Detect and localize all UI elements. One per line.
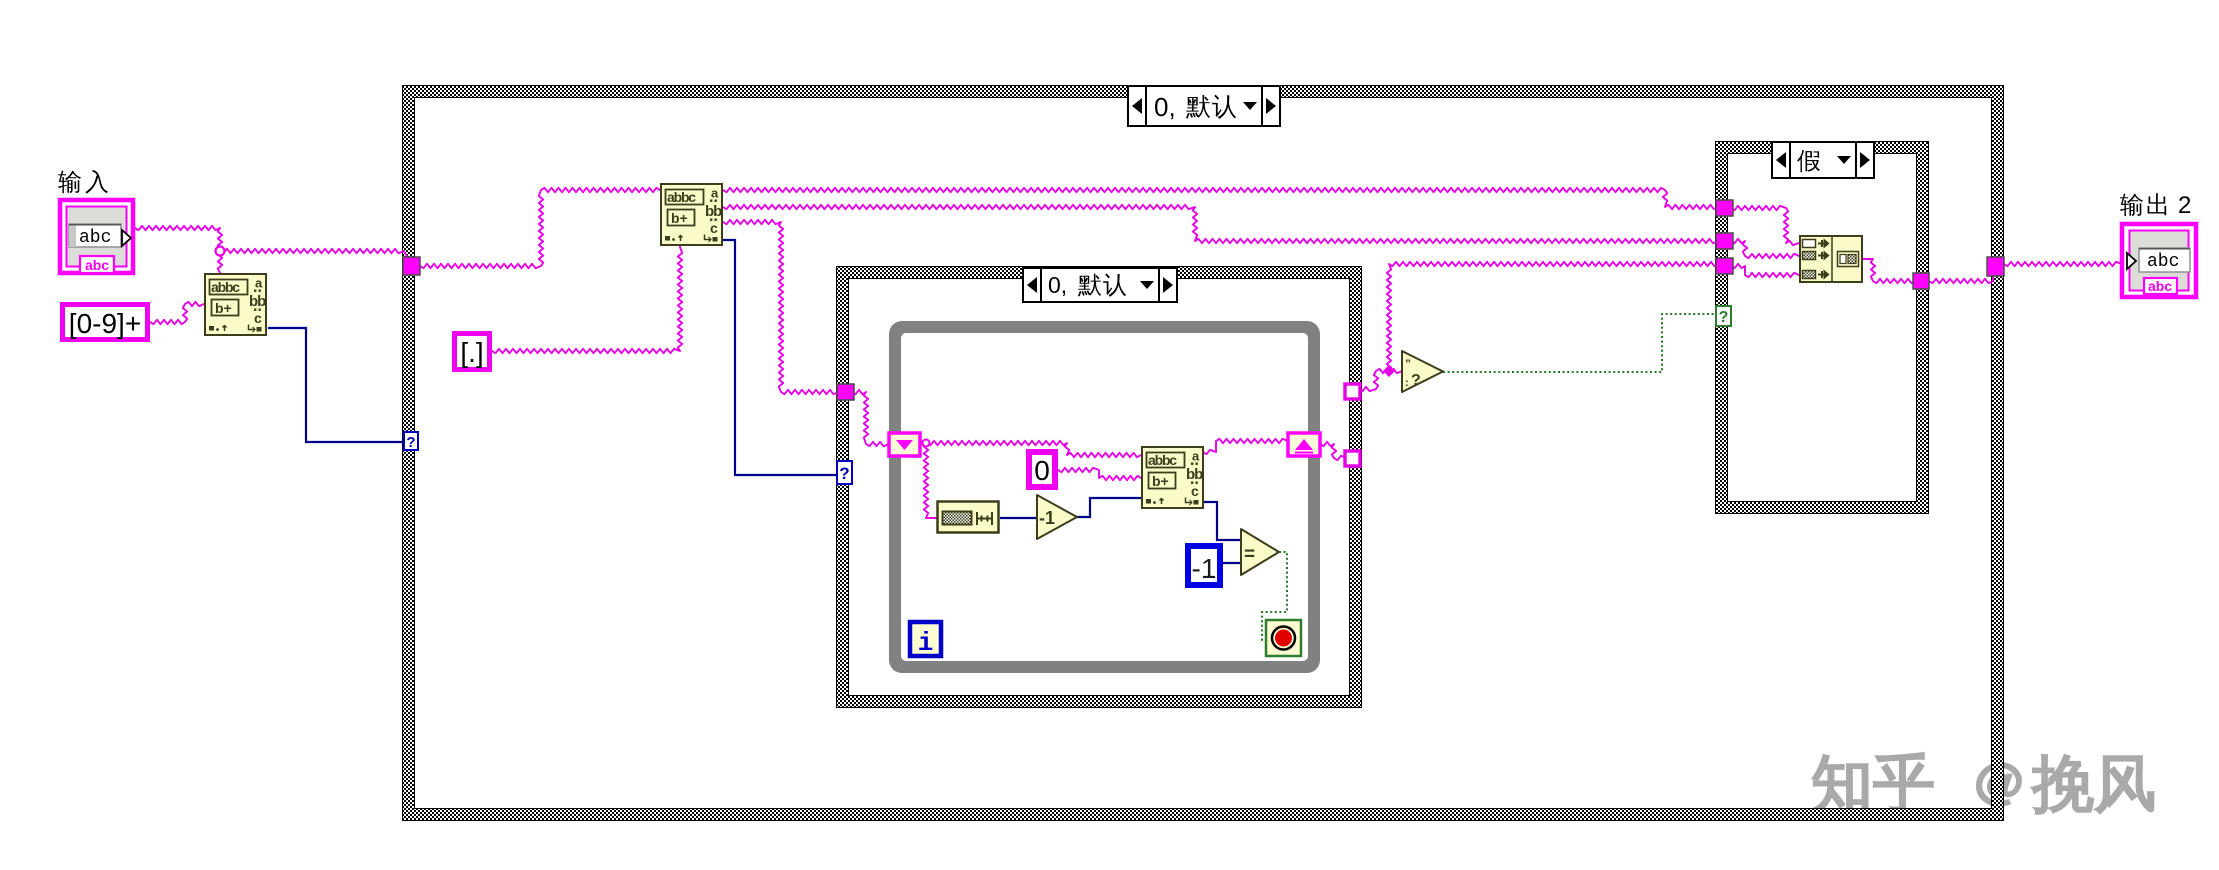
- wire: input control to junction: [135, 226, 222, 249]
- wire: 0 constant to node3: [1058, 468, 1141, 480]
- wire: right case tunnel to outer case tunnel: [1929, 276, 1993, 283]
- svg-text:abc: abc: [2148, 278, 2172, 294]
- wire: outer tunnel to node2: [420, 188, 660, 268]
- outer case selector terminal ?: [404, 432, 418, 451]
- string constant [.]: [455, 334, 490, 370]
- wire junction after left shift register: [923, 440, 930, 447]
- svg-text:b+: b+: [215, 300, 232, 316]
- svg-text::: :: [1405, 377, 1409, 389]
- wire: tunnel1 to replace node row1: [1731, 206, 1799, 245]
- wire: replace node output to right case output tunnel: [1862, 259, 1915, 283]
- svg-text:bb: bb: [705, 203, 722, 220]
- input string control 输入: [60, 200, 133, 273]
- while loop border: [889, 321, 1320, 673]
- wire: node2 output bb to right case tunnel2: [723, 205, 1718, 243]
- svg-text:c: c: [710, 220, 718, 236]
- svg-text:-1: -1: [1192, 553, 1217, 584]
- green wire: equal node to loop stop terminal: [1262, 552, 1287, 640]
- outer case structure border: [402, 85, 2004, 821]
- wire: [0-9]+ constant to node1: [150, 302, 204, 324]
- svg-text:0,: 0,: [1154, 92, 1176, 122]
- wire junction near node1: [216, 247, 225, 256]
- right case output tunnel: [1913, 273, 1929, 289]
- nested case structure border: [836, 266, 1362, 708]
- left shift register: [889, 433, 920, 456]
- blue wire: string length to decrement: [1000, 517, 1037, 519]
- node2 match regular expression: Search and Replace String node: [661, 184, 722, 245]
- svg-text:i: i: [918, 628, 934, 658]
- wire: junction up to right case tunnel3: [1387, 262, 1718, 371]
- wire: tunnel3 to replace node row3: [1731, 264, 1799, 277]
- outer case output tunnel: [1987, 257, 2004, 276]
- svg-text:0,: 0,: [1048, 272, 1067, 298]
- svg-text:0: 0: [1034, 455, 1050, 486]
- blue wire: -1 constant to equal node: [1223, 562, 1241, 564]
- wire: junction down to node1: [218, 251, 222, 273]
- wire: node2 output c to nested case tunnel: [723, 220, 839, 394]
- nested case label "0, 默认": [1023, 268, 1177, 302]
- nested case upper hollow tunnel: [1345, 384, 1360, 399]
- node3 search and replace: Search and Replace String node: [1142, 447, 1203, 508]
- svg-text:abbc: abbc: [1148, 452, 1177, 468]
- svg-text:b+: b+: [1152, 473, 1169, 489]
- loop stop terminal: [1266, 620, 1301, 656]
- svg-text:?: ?: [839, 464, 849, 483]
- svg-text:abbc: abbc: [667, 189, 696, 205]
- svg-text:2: 2: [2178, 192, 2191, 219]
- svg-text:abc: abc: [85, 257, 109, 273]
- watermark 知乎 @挽风: [1813, 753, 2153, 813]
- svg-text:-1: -1: [1039, 508, 1055, 528]
- svg-text:a: a: [255, 276, 263, 291]
- wire: upper hollow tunnel to empty-string node: [1359, 369, 1402, 391]
- svg-text:[0-9]+: [0-9]+: [69, 308, 141, 339]
- svg-text:?: ?: [406, 434, 415, 451]
- right case tunnel 2: [1716, 233, 1733, 249]
- label 输出 2: [2120, 192, 2191, 219]
- wire: nested tunnel to left shift register: [852, 390, 889, 446]
- blue wire: decrement to node3 offset: [1077, 498, 1141, 517]
- wire: [.] constant to node2: [492, 247, 682, 353]
- right inner case structure border: [1715, 141, 1929, 514]
- wire: node2 output a to right case tunnel1: [723, 188, 1718, 209]
- wire: junction to outer tunnel: [220, 249, 408, 258]
- svg-text:bb: bb: [249, 293, 266, 310]
- outer case input tunnel: [403, 257, 420, 275]
- right case selector terminal ? (boolean): [1716, 306, 1731, 326]
- wire junction before empty-string node: [1383, 365, 1395, 377]
- right case tunnel 3: [1716, 258, 1733, 274]
- svg-text:?: ?: [1411, 372, 1421, 389]
- node1 match regular expression: Search and Replace String node: [205, 274, 266, 335]
- svg-text:a: a: [711, 186, 719, 201]
- svg-text:b+: b+: [671, 210, 688, 226]
- wire: outer tunnel to output indicator: [2004, 262, 2122, 266]
- svg-text:=: =: [1244, 544, 1255, 565]
- decrement node: [1037, 495, 1077, 539]
- svg-text:a: a: [1192, 449, 1200, 464]
- string constant 0: [1029, 452, 1055, 487]
- right case label "假": [1772, 142, 1874, 178]
- svg-text:c: c: [254, 310, 262, 326]
- svg-text:abbc: abbc: [211, 279, 240, 295]
- right case tunnel 1: [1716, 200, 1733, 216]
- svg-text:c: c: [1191, 483, 1199, 499]
- nested case selector terminal ?: [837, 461, 852, 484]
- wire: right shift register to lower hollow tunnel: [1320, 442, 1346, 460]
- blue wire: node1 to outer case selector: [268, 328, 404, 442]
- iteration terminal i: [910, 622, 941, 658]
- string constant [0-9]+: [63, 305, 148, 340]
- nested case input tunnel: [837, 384, 854, 400]
- svg-text:abc: abc: [79, 228, 111, 248]
- empty string? node: [1402, 351, 1443, 392]
- green wire: empty-string node to right case selector: [1443, 314, 1716, 372]
- blue wire: node2 to nested case selector: [723, 240, 838, 475]
- wire: node3 output a to right shift register: [1203, 439, 1288, 454]
- output string indicator 输出 2: [2122, 224, 2196, 297]
- svg-text:?: ?: [1719, 309, 1729, 326]
- wire: tunnel2 to replace node row2: [1731, 239, 1799, 258]
- string length node: [938, 502, 999, 533]
- numeric constant -1: [1188, 546, 1220, 585]
- wire: junction down to string length: [924, 443, 936, 518]
- equal node: [1241, 529, 1279, 575]
- wire: left shift register to node3: [920, 441, 1141, 457]
- nested case lower hollow tunnel: [1345, 451, 1360, 466]
- label 输入: [58, 170, 108, 194]
- outer case label "0, 默认": [1128, 86, 1280, 126]
- blue wire: node3 offset-past-match to equal node: [1203, 502, 1240, 540]
- svg-text:”: ”: [1405, 357, 1411, 371]
- svg-text:abc: abc: [2147, 252, 2179, 272]
- svg-text:[.]: [.]: [460, 337, 483, 368]
- right shift register: [1288, 433, 1320, 456]
- replace substring node (right case): [1800, 236, 1862, 282]
- svg-text:bb: bb: [1186, 466, 1203, 483]
